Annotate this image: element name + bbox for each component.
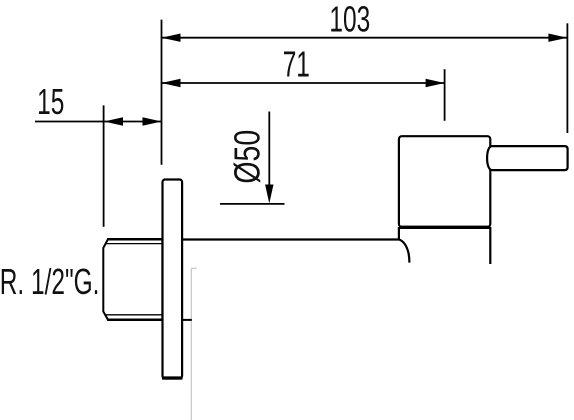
svg-text:103: 103	[329, 0, 370, 40]
svg-text:Ø50: Ø50	[226, 130, 267, 184]
svg-text:R. 1/2"G.: R. 1/2"G.	[0, 261, 99, 302]
svg-text:71: 71	[283, 44, 310, 85]
svg-text:15: 15	[37, 81, 64, 122]
